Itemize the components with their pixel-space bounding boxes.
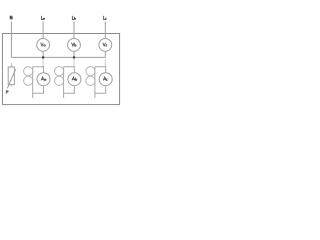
surge arrester F1 body bbox=[8, 67, 14, 85]
node N label bbox=[10, 16, 12, 20]
junction dot b bbox=[73, 56, 75, 58]
surge arrester F1 diagonal bbox=[7, 69, 15, 88]
voltmeter Va bbox=[37, 39, 50, 52]
node Lb label bbox=[72, 16, 75, 20]
surge arrester F1 arrowhead bbox=[6, 90, 9, 94]
phase c connector bbox=[95, 67, 106, 73]
ammeter Aa return wire bbox=[33, 86, 44, 94]
ammeter Ab return wire bbox=[64, 86, 75, 94]
phase a connector bbox=[33, 67, 44, 73]
node Lc label bbox=[104, 16, 107, 20]
wire Vc to bus bbox=[104, 51, 106, 57]
CT b primary conductor bbox=[63, 67, 65, 98]
enclosure border bbox=[2, 34, 119, 105]
wire Lc drop bbox=[104, 22, 106, 39]
CT a winding circles bbox=[24, 67, 33, 76]
node La label bbox=[41, 16, 44, 20]
wire N vertical drop bbox=[10, 22, 12, 58]
phase b lower stub bbox=[73, 59, 75, 67]
CT a primary conductor bbox=[32, 67, 34, 98]
phase c lower stub bbox=[104, 59, 106, 67]
phase b connector bbox=[64, 67, 75, 73]
background bbox=[0, 0, 122, 122]
CT c winding circles bbox=[86, 67, 95, 76]
wire neutral bus bbox=[11, 56, 105, 58]
phase a lower stub bbox=[42, 59, 44, 67]
wire Vb to bus bbox=[73, 51, 75, 57]
wire Va to bus bbox=[42, 51, 44, 57]
junction dot a bbox=[42, 56, 44, 58]
ammeter Ac return wire bbox=[95, 86, 106, 94]
CT b winding circles bbox=[55, 67, 64, 76]
voltmeter Vb bbox=[68, 39, 81, 52]
voltmeter Vc bbox=[99, 39, 112, 52]
wire N stub to arrester bbox=[10, 63, 12, 67]
ammeter Aa bbox=[37, 73, 50, 86]
CT c primary conductor bbox=[94, 67, 96, 98]
wire Lb drop bbox=[73, 22, 75, 39]
ammeter Ac bbox=[99, 73, 112, 86]
surge arrester F1 stub below bbox=[10, 85, 12, 87]
ammeter Ab bbox=[68, 73, 81, 86]
wire La drop bbox=[42, 22, 44, 39]
